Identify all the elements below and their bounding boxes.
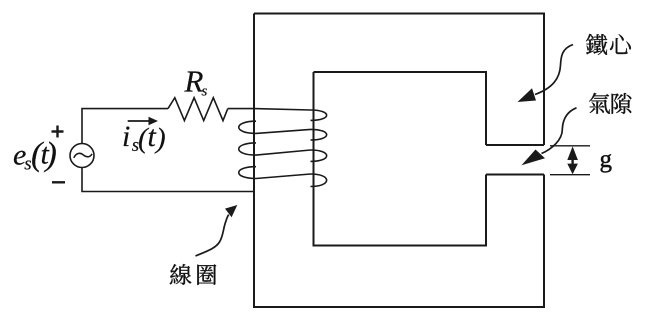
iron core outer boundary — [254, 14, 544, 308]
iron core inner window — [314, 72, 487, 246]
label iron core 鐵 char — [586, 34, 607, 55]
svg-text:g: g — [600, 146, 613, 173]
pointer arrow to iron core — [518, 45, 574, 103]
coil turn 1 left bump and strand — [239, 121, 311, 133]
svg-text:): ) — [154, 123, 166, 155]
gap dimension leader lines — [550, 146, 590, 175]
resistor Rs zigzag — [168, 98, 228, 121]
coil turn 1 right bump — [311, 110, 327, 120]
wire source bottom lead — [82, 168, 254, 192]
label e_s(t) — [13, 136, 57, 175]
wire source top lead — [82, 109, 168, 144]
coil turn 2 left bump and strand — [239, 143, 311, 155]
label iron core 心 char — [610, 34, 631, 54]
coil turn 2 right bump — [311, 129, 327, 140]
coil turn 3 left bump and strand — [239, 167, 311, 179]
svg-text:i: i — [122, 120, 130, 153]
coil turn 3 right bump — [311, 150, 327, 161]
coil turn 4 right bump — [311, 174, 327, 187]
pointer arrow to air gap — [522, 108, 577, 166]
svg-text:s: s — [202, 84, 208, 100]
label Rs — [184, 64, 208, 100]
label i_s(t) — [122, 120, 166, 156]
svg-text:): ) — [44, 136, 57, 173]
air gap faces — [486, 145, 544, 175]
label air gap 隙 char — [612, 93, 632, 114]
wire resistor to coil — [228, 109, 311, 110]
gap dimension double arrow — [567, 146, 578, 174]
label coil 線 char — [170, 264, 192, 285]
current arrow over i_s(t) — [128, 117, 158, 125]
source e_s(t) AC symbol — [70, 144, 94, 168]
minus terminal mark — [52, 181, 65, 183]
pointer arrow to coil — [196, 205, 238, 256]
label air gap 氣 char — [589, 93, 610, 114]
plus terminal mark — [52, 126, 64, 138]
label coil 圈 char — [197, 264, 216, 285]
svg-text:R: R — [184, 64, 204, 99]
